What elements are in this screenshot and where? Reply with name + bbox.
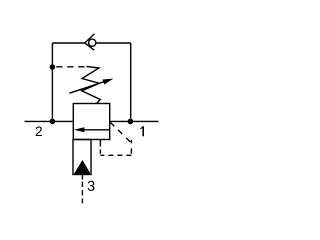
drain throat box <box>73 140 91 175</box>
node dot left pilot junction <box>50 64 56 70</box>
wire port 1 line <box>110 120 159 122</box>
node dot port 2 junction <box>50 119 56 125</box>
node dot port 1 junction <box>128 119 134 125</box>
wire port 2 line <box>25 120 74 122</box>
adjustment arrow head <box>103 79 114 85</box>
label port 3 <box>88 181 95 191</box>
pilot dashed diagonal from port 1 <box>110 122 131 143</box>
flow arrow head <box>74 127 85 132</box>
pilot dashed right vertical <box>130 140 132 155</box>
pilot dashed left vertical to drain chamber <box>99 140 101 156</box>
hydraulic sequence valve schematic <box>0 0 190 236</box>
check valve CV1 ball <box>89 39 96 46</box>
wire right rail <box>130 43 132 121</box>
label port 2 <box>36 127 42 137</box>
check valve CV1 seat <box>85 34 95 50</box>
pilot dashed bottom horizontal <box>100 154 131 156</box>
wire top-right segment <box>96 42 131 44</box>
spring S1 <box>82 66 101 103</box>
port 3 dashed drain line <box>81 182 83 204</box>
adjustment arrow shaft <box>69 82 104 94</box>
pilot dashed line left <box>56 66 86 68</box>
relief triangle <box>74 160 91 175</box>
wire top-left segment <box>52 42 84 44</box>
valve body U1 <box>73 104 109 140</box>
wire left rail <box>51 43 53 121</box>
flow arrow shaft inside body <box>84 129 110 131</box>
label port 1 <box>140 126 144 136</box>
port 3 stub <box>81 175 83 180</box>
